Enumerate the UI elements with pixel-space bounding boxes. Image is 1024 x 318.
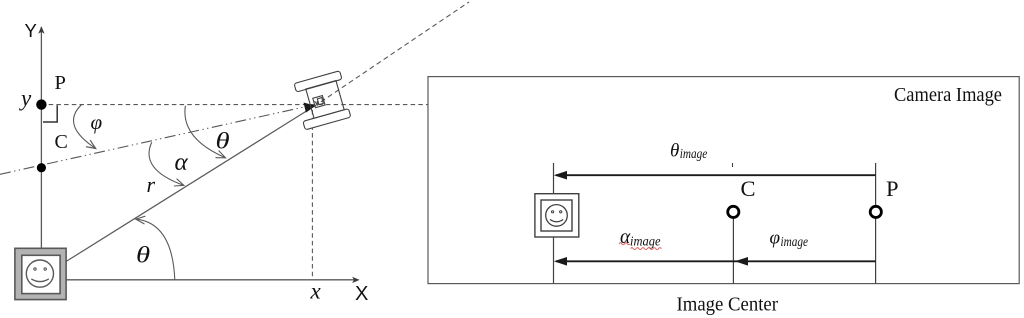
theta upper arc	[185, 106, 226, 158]
robot box inner	[22, 255, 60, 293]
alpha arc arrowhead	[174, 179, 184, 186]
svg-text:φ: φ	[91, 110, 103, 134]
right smiley face	[546, 205, 568, 227]
svg-text:Camera Image: Camera Image	[894, 84, 1002, 106]
car body	[306, 81, 344, 119]
camera image rect	[428, 77, 1019, 284]
svg-text:image: image	[680, 146, 708, 161]
theta_image arrow	[556, 174, 876, 176]
robot smiley face	[26, 260, 53, 287]
small tick above C	[732, 163, 734, 167]
P circle	[870, 206, 881, 217]
car sensor squiggle	[315, 100, 319, 105]
left arrowhead	[554, 257, 567, 266]
theta upper arrowhead	[216, 151, 226, 158]
svg-text:φ: φ	[770, 228, 781, 249]
point C dot	[37, 163, 46, 172]
car sensor inner	[317, 98, 323, 105]
left vertical line (image center line)	[553, 163, 555, 194]
svg-text:x: x	[310, 279, 322, 304]
dashed horizontal line through P	[41, 104, 428, 106]
svg-text:C: C	[55, 131, 68, 153]
point P dot	[36, 99, 46, 109]
r line from robot to car	[66, 109, 310, 262]
car top axle	[294, 71, 342, 92]
robot box outer	[15, 248, 66, 299]
svg-text:θ: θ	[670, 141, 679, 162]
svg-text:Image Center: Image Center	[677, 295, 779, 316]
alpha arc	[149, 142, 184, 185]
filled arrowhead at car	[304, 103, 314, 112]
svg-text:image: image	[781, 234, 809, 249]
right smiley box outer	[535, 194, 579, 237]
svg-text:X: X	[355, 283, 368, 305]
right angle marker at P	[43, 105, 57, 122]
svg-text:C: C	[741, 176, 756, 201]
car group	[292, 71, 352, 130]
svg-text:θ: θ	[136, 242, 150, 268]
red wavy underline	[619, 243, 630, 245]
X axis	[66, 279, 356, 281]
svg-text:Y: Y	[25, 20, 37, 41]
dash-dot center line through C	[0, 105, 314, 175]
P vertical line	[875, 163, 877, 284]
svg-text:θ: θ	[216, 128, 230, 154]
svg-text:P: P	[55, 72, 66, 94]
svg-text:image: image	[630, 234, 661, 249]
alpha/phi image arrow line	[556, 260, 876, 262]
svg-text:P: P	[886, 176, 899, 201]
phi arc	[74, 105, 96, 149]
phi arc arrowhead	[86, 140, 96, 148]
svg-text:r: r	[147, 172, 156, 197]
theta lower arrowhead	[136, 216, 146, 224]
C vertical line	[732, 219, 734, 284]
dashed heading line from car to top right	[314, 2, 469, 107]
svg-text:α: α	[175, 149, 189, 176]
Y axis	[40, 27, 42, 249]
vertical dashed line from car to X axis	[311, 110, 313, 277]
Y axis arrowhead	[38, 26, 44, 34]
car sensor rect	[313, 96, 325, 108]
car bottom axle	[303, 109, 351, 130]
X axis arrowhead	[352, 277, 360, 283]
theta lower arc	[136, 219, 175, 280]
right smiley box inner	[541, 200, 572, 231]
svg-text:y: y	[19, 86, 32, 111]
middle arrowhead at C	[735, 257, 748, 266]
C circle	[728, 206, 739, 217]
